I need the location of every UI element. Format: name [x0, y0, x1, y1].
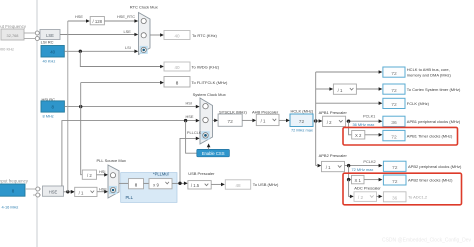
- wire to AHB core row: [316, 71, 379, 73]
- svg-text:To USB (MHz): To USB (MHz): [253, 182, 279, 187]
- svg-text:X 2: X 2: [355, 133, 362, 138]
- pin circle OSC_OUT: [36, 193, 40, 197]
- box To RTC value: [164, 31, 190, 40]
- wire Cortex prescaler to value: [356, 88, 379, 90]
- svg-text:x 9: x 9: [153, 182, 159, 187]
- pin circle OSC32_OUT: [35, 37, 39, 41]
- wire HSE to system clock mux: [62, 121, 196, 186]
- svg-text:72: 72: [392, 179, 398, 185]
- divider /2 box HSI: [82, 170, 96, 179]
- wire mux to PLL input box: [119, 182, 129, 184]
- wire ADC prescaler to value: [377, 195, 380, 197]
- wire X1 to APB2 timer value: [364, 179, 379, 181]
- box APB1 timer value 72: [383, 130, 405, 140]
- junction PLLCLK: [178, 182, 181, 185]
- wire APB2 prescaler to PCLK2: [345, 165, 380, 167]
- svg-text:Input Frequency: Input Frequency: [0, 24, 27, 29]
- svg-text:HCLK (MHz): HCLK (MHz): [291, 108, 314, 113]
- svg-text:72 MHz max: 72 MHz max: [291, 127, 313, 132]
- PLL block background: [121, 173, 177, 203]
- highlight red box APB2 timers and ADC: [343, 173, 462, 205]
- junction HSE to CSS: [184, 119, 187, 122]
- dropdown APB1 prescaler /2: [323, 116, 346, 126]
- svg-text:72: 72: [392, 165, 398, 171]
- junction HCLK fanout: [314, 119, 317, 122]
- box Cortex timer value 72: [383, 84, 405, 94]
- wire HSE to /128: [68, 20, 87, 22]
- svg-text:HSI: HSI: [99, 169, 106, 174]
- box FLITFCLK value 8: [164, 77, 190, 88]
- wire HSI riser to FLITF and PLL /2: [81, 83, 83, 175]
- svg-text:To Cortex System timer (MHz): To Cortex System timer (MHz): [407, 87, 461, 92]
- box APB2 timer value 72: [383, 175, 406, 185]
- highlight red box APB1 timer: [343, 127, 458, 145]
- wire HCLK to trunk: [313, 120, 322, 122]
- button Enable CSS: [197, 149, 230, 156]
- svg-text:HSE: HSE: [75, 14, 83, 19]
- wire PCLK2 to ADC prescaler: [349, 180, 351, 197]
- radio LSE: [141, 33, 146, 38]
- junction ADC branch: [347, 178, 350, 181]
- svg-text:memory and DMA (MHz): memory and DMA (MHz): [407, 73, 452, 78]
- LSE input frequency box 32.768: [1, 29, 24, 40]
- svg-text:HSE: HSE: [186, 114, 194, 119]
- junction LSI branch: [79, 50, 82, 53]
- oscillator LSE box: [40, 30, 60, 40]
- svg-text:To RTC (KHz): To RTC (KHz): [192, 33, 217, 38]
- multiplier X2 box: [352, 131, 365, 140]
- wire USB prescaler to value: [211, 183, 221, 185]
- dropdown ADC prescaler /2 greyed: [354, 192, 377, 202]
- svg-text:72: 72: [227, 119, 233, 125]
- wire system clock mux output: [213, 119, 215, 121]
- junction HSE: [66, 190, 69, 193]
- svg-text:36: 36: [392, 196, 398, 201]
- wire HSI to system clock mux: [64, 106, 196, 108]
- svg-text:*PLLMul: *PLLMul: [153, 171, 169, 176]
- dropdown AHB prescaler /1: [256, 114, 279, 125]
- box PCLK2 value 72: [383, 161, 406, 171]
- svg-text:/ 1: / 1: [261, 119, 266, 124]
- dropdown USB prescaler /1.5: [188, 181, 211, 189]
- wire LSE pins: [24, 32, 40, 34]
- wire: [33, 194, 41, 196]
- wire RTC mux output: [150, 34, 161, 36]
- wire CSS to mux arrow: [208, 146, 210, 149]
- svg-text:/ 2: / 2: [358, 195, 364, 200]
- svg-text:PCLK1: PCLK1: [363, 113, 375, 118]
- radio PLLCLK selected: [201, 131, 209, 139]
- svg-text:40: 40: [50, 49, 55, 54]
- box USB value 48 greyed: [225, 180, 250, 189]
- wire HSI to FLITFCLK: [81, 82, 161, 84]
- wire PLLMul output to junction: [172, 182, 184, 184]
- svg-text:HCLK to AHB bus, core,: HCLK to AHB bus, core,: [407, 67, 450, 72]
- radio PLL HSI: [110, 173, 115, 178]
- svg-text:72: 72: [391, 71, 397, 77]
- svg-text:/ 2: / 2: [87, 173, 92, 178]
- svg-text:/ 1: / 1: [79, 190, 84, 195]
- svg-text:48: 48: [235, 183, 241, 188]
- svg-text:LSE: LSE: [46, 33, 54, 38]
- radio LSI selected: [140, 46, 148, 54]
- svg-text:HSI: HSI: [186, 100, 193, 105]
- wire prediv to PLL mux: [97, 191, 105, 193]
- svg-text:To FLITFCLK (MHz): To FLITFCLK (MHz): [192, 80, 228, 85]
- svg-text:APB1 peripheral clocks (MHz): APB1 peripheral clocks (MHz): [407, 119, 461, 124]
- wire HSE output: [64, 191, 72, 193]
- mux system clock mux: [200, 98, 213, 144]
- dropdown PLL HSE prediv /1: [75, 187, 97, 196]
- svg-text:/ 1: / 1: [326, 165, 331, 170]
- wire /2 to PLL mux: [97, 174, 105, 176]
- wire LSI to RTC mux: [64, 50, 136, 52]
- svg-text:0-1000 KHz: 0-1000 KHz: [0, 46, 14, 51]
- box ADC value 36 greyed: [383, 192, 406, 202]
- wire X2 to APB1 timer value: [365, 134, 379, 136]
- svg-text:/ 1.5: / 1.5: [191, 183, 200, 188]
- svg-text:X 1: X 1: [354, 178, 361, 183]
- svg-text:RTC Clock Mux: RTC Clock Mux: [130, 5, 158, 10]
- svg-text:PLL: PLL: [126, 195, 134, 200]
- svg-text:40: 40: [174, 65, 180, 70]
- svg-text:LSE: LSE: [123, 29, 131, 34]
- wire AHB to HCLK: [279, 119, 286, 121]
- svg-text:8: 8: [176, 81, 179, 86]
- svg-text:HSE: HSE: [99, 186, 107, 191]
- pin circle OSC_IN: [36, 187, 40, 191]
- junction HSI branch: [79, 105, 82, 108]
- wire to Cortex timer row: [316, 88, 330, 90]
- wire fanout trunk vertical: [315, 72, 317, 166]
- svg-text:Input frequency: Input frequency: [0, 179, 29, 184]
- svg-text:HSE: HSE: [49, 189, 58, 194]
- box SYSCLK value 72: [218, 114, 242, 126]
- svg-text:Enable CSS: Enable CSS: [202, 151, 225, 156]
- box PCLK1 value 36: [383, 116, 405, 126]
- box HCLK core value 72: [383, 67, 405, 77]
- svg-text:CSDN @Embedded_Clock_Config_De: CSDN @Embedded_Clock_Config_Dev: [382, 238, 472, 244]
- wire trunk to APB2 prescaler: [318, 164, 322, 168]
- divider /128 box: [90, 17, 104, 25]
- left pane separator line: [36, 0, 38, 247]
- svg-text:PLL Source Mux: PLL Source Mux: [97, 158, 126, 163]
- svg-text:36 MHz max: 36 MHz max: [353, 122, 375, 127]
- svg-text:LSI RC: LSI RC: [41, 39, 54, 44]
- svg-text:ADC Prescaler: ADC Prescaler: [354, 186, 381, 191]
- wire HSE to PLL prediv: [71, 190, 75, 194]
- wire to PLLMul: [144, 182, 150, 184]
- mux PLL source mux: [108, 165, 119, 198]
- svg-text:APB2 Prescaler: APB2 Prescaler: [319, 153, 348, 158]
- box FCLK value 72: [383, 98, 405, 108]
- svg-text:HSE_RTC: HSE_RTC: [117, 14, 135, 19]
- wire: [24, 38, 40, 40]
- wire PLLCLK to system clock mux: [180, 138, 196, 183]
- svg-text:72: 72: [391, 134, 397, 140]
- wire HSE pins: [25, 188, 41, 190]
- HSE input frequency box 8: [0, 184, 25, 196]
- svg-text:APB1 Prescaler: APB1 Prescaler: [319, 110, 348, 115]
- dropdown APB2 prescaler /1: [322, 161, 345, 171]
- svg-text:System Clock Mux: System Clock Mux: [193, 92, 226, 97]
- wire SYSCLK to AHB prescaler: [242, 119, 253, 121]
- svg-text:LSI: LSI: [125, 45, 131, 50]
- svg-text:/ 128: / 128: [93, 19, 103, 24]
- radio HSE: [203, 117, 208, 122]
- mux RTC clock mux: [139, 13, 151, 55]
- wire to FCLK row: [316, 102, 379, 104]
- svg-text:72: 72: [391, 102, 397, 108]
- dropdown Cortex prescaler /1: [333, 84, 356, 94]
- svg-text:APB2 timer clocks (MHz): APB2 timer clocks (MHz): [408, 177, 453, 182]
- svg-text:32,768: 32,768: [7, 33, 19, 38]
- box To IWDG value: [164, 62, 190, 71]
- svg-text:FCLK (MHz): FCLK (MHz): [407, 101, 430, 106]
- svg-text:APB1 Timer clocks (MHz): APB1 Timer clocks (MHz): [407, 133, 453, 138]
- junction PCLK2 branch: [347, 164, 350, 167]
- wire HSE to Enable CSS: [186, 121, 197, 154]
- wire PCLK2 to X1: [349, 166, 352, 180]
- svg-text:40 KHz: 40 KHz: [43, 59, 56, 64]
- box PLL input value 8: [129, 179, 144, 189]
- svg-text:PLLCLK: PLLCLK: [187, 130, 202, 135]
- svg-text:To ADC1,2: To ADC1,2: [408, 195, 428, 200]
- junction PCLK1 branch: [347, 120, 350, 123]
- pin circle OSC32_IN: [35, 31, 39, 35]
- svg-text:8 MHz: 8 MHz: [43, 114, 54, 119]
- wire PCLK1 to X2: [349, 121, 352, 135]
- oscillator LSI box: [41, 46, 64, 58]
- wire LSI to IWDG: [80, 51, 160, 66]
- oscillator HSE box: [43, 186, 64, 196]
- dropdown PLLMul x9: [149, 179, 172, 189]
- svg-text:4-16 MHz: 4-16 MHz: [2, 205, 19, 210]
- oscillator HSI box: [41, 101, 64, 112]
- multiplier X1 box: [352, 175, 365, 183]
- box HCLK value 72: [290, 114, 313, 127]
- wire HSE vertical trunk: [67, 21, 69, 192]
- svg-text:36: 36: [391, 120, 397, 126]
- radio HSE_RTC: [141, 18, 146, 23]
- svg-text:72: 72: [299, 119, 305, 125]
- svg-text:To IWDG (KHz): To IWDG (KHz): [192, 65, 220, 70]
- wire /128 to RTC mux: [104, 20, 136, 22]
- svg-text:APB2 peripheral clocks (MHz): APB2 peripheral clocks (MHz): [408, 164, 462, 169]
- svg-text:40: 40: [174, 34, 180, 39]
- svg-text:USB Prescaler: USB Prescaler: [188, 171, 215, 176]
- wire APB1 prescaler to PCLK1: [346, 120, 379, 122]
- svg-text:/ 2: / 2: [327, 120, 332, 125]
- svg-text:72: 72: [391, 88, 397, 94]
- wire LSE to RTC mux: [60, 34, 136, 36]
- svg-text:/ 1: / 1: [338, 88, 343, 93]
- radio PLL HSE selected: [109, 186, 117, 194]
- svg-text:PCLK2: PCLK2: [363, 159, 375, 164]
- radio HSI: [203, 104, 208, 109]
- svg-text:72 MHz max: 72 MHz max: [352, 167, 374, 172]
